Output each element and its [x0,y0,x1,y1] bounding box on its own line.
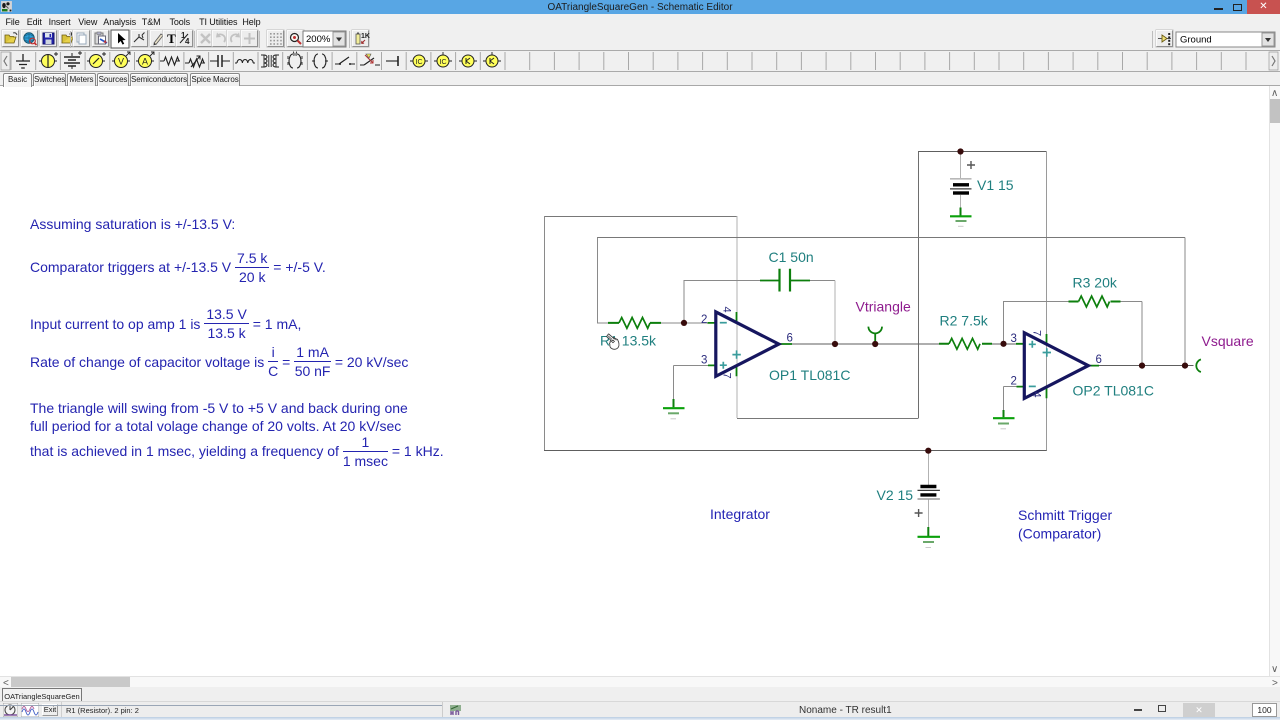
mouse hand cursor over R1 label [607,334,619,349]
wire negative rail top segment [544,216,737,218]
junction node Vtriangle tap [872,341,878,347]
battery plates icon [64,51,82,69]
svg-text:R2 7.5k: R2 7.5k [940,313,989,329]
svg-text:3: 3 [1011,333,1017,345]
wire C1 right horizontal [810,280,835,282]
wire negative rail bottom segment [544,450,1047,452]
svg-text:4: 4 [1031,392,1043,398]
ground at OP2 pin2 [993,410,1015,429]
wire V2 battery stem lower [927,499,929,527]
svg-text:IC: IC [440,59,447,66]
wire OP1 V- drop at x=737 [736,216,738,418]
junction node R3 right on output [1139,363,1145,369]
inductor icon [235,60,255,64]
resistor icon [160,57,180,65]
ammeter icon [136,52,154,68]
resistor R2 [939,338,992,349]
svg-text:Vtriangle: Vtriangle [856,299,911,315]
wire OP1 output to R2 [792,343,940,345]
wire OP2 supply drop x=1046.5 [1046,152,1048,451]
ground at OP1 pin3 [663,399,685,419]
wire negative rail left segment [544,216,546,451]
junction node OP2 pin3 / R3 [1000,341,1006,347]
note formula line 3 [30,306,301,342]
battery V2 [915,487,940,518]
wire R3 right horizontal [1121,301,1143,303]
svg-text:M: M [293,52,298,58]
potentiometer icon [185,56,205,67]
svg-text:4: 4 [185,37,190,46]
ground icon [16,54,30,68]
coupled inductors icon [288,52,302,68]
note formula line 7 [30,433,444,469]
junction node Vsquare tap [1182,363,1188,369]
wire feedback vertical x=1185 [1184,238,1186,366]
wire OP1 pin3 horizontal [674,364,709,366]
op-amp OP1 [708,312,793,376]
status bar [0,701,1280,717]
svg-text:Ground: Ground [1180,35,1212,46]
resistor R1 [608,318,661,329]
svg-text:2: 2 [1011,376,1017,388]
note paragraph [30,400,408,416]
capacitor icon [210,55,230,67]
voltage source icon [87,52,106,68]
macro icon 3 [459,55,477,67]
junction node V2 top [925,448,931,454]
wire R1 to OP1 pin2 [661,322,708,324]
svg-text:OP2 TL081C: OP2 TL081C [1073,383,1154,399]
op-amp OP2 [1016,333,1099,399]
svg-text:200%: 200% [306,34,331,45]
svg-text:A: A [142,57,148,67]
junction node C1 right on output [832,341,838,347]
svg-text:3: 3 [701,355,707,367]
vertical scrollbar [1269,86,1280,676]
transformer icon [261,55,279,67]
voltmeter icon [112,52,130,68]
ground below V2 [918,527,941,548]
analysis note text block [30,216,235,232]
svg-text:Vsquare: Vsquare [1202,333,1254,349]
node Vtriangle terminal [868,327,882,344]
svg-text:Schmitt Trigger: Schmitt Trigger [1018,507,1112,523]
battery circle icon [39,52,58,68]
resistor R3 [1069,296,1121,307]
svg-text:V1 15: V1 15 [977,177,1014,193]
svg-text:R3 20k: R3 20k [1073,275,1118,291]
wire R3 left horizontal [1004,301,1069,303]
note formula line 2 [30,249,326,285]
macro IC icon 1 [410,55,428,67]
wire OP2 output to Vsquare [1099,365,1194,367]
svg-text:7: 7 [1031,330,1043,336]
capacitor C1 [760,269,810,292]
wire R2 to OP2 pin3 [992,343,1016,345]
wire OP2 pin2 ground drop [1003,387,1005,410]
terminator icon [386,56,398,66]
wire R1 left lead-in [597,322,608,324]
junction node A R1/C1/OP1 pin2 [681,320,687,326]
wire V2 battery stem upper [927,451,929,485]
svg-text:V: V [118,57,124,67]
macro icon 4 [483,52,501,67]
svg-text:V2 15: V2 15 [877,487,914,503]
svg-text:C1 50n: C1 50n [769,249,814,265]
svg-text:6: 6 [1096,354,1102,366]
wire V1 battery stem lower [960,195,962,208]
document tab [0,687,1280,701]
coupled inductors 2 icon [312,54,328,68]
node Vsquare terminal [1196,359,1201,372]
wire positive rail top segment V1 [918,151,1047,153]
wire node A up to C1 [683,280,685,323]
note formula line 4 [30,344,408,380]
controlled switch icon [360,54,380,65]
junction node V1 plus [957,148,963,154]
svg-text:1K: 1K [361,33,370,40]
svg-text:6: 6 [787,333,793,345]
svg-text:T: T [167,31,176,46]
wire positive rail vertical x=918 [918,152,920,419]
wire feedback top y=237 Vsquare to R1 [597,237,1185,239]
svg-text:2: 2 [701,314,707,326]
svg-text:4: 4 [721,307,733,313]
ground below V1 [950,208,972,227]
wire R3 right drop x=1142 [1141,302,1143,366]
wire OP2 pin2 horizontal [1004,386,1017,388]
wire C1 left horizontal [684,280,760,282]
window title bar [0,0,1280,14]
wire OP1 pin3 ground drop [673,365,675,399]
svg-text:Integrator: Integrator [710,506,770,522]
wire OP2 pin3 up to R3 [1003,301,1005,344]
component tabs [0,72,1280,86]
wire C1 right drop x=835 [834,281,836,345]
svg-text:7: 7 [721,373,733,379]
switch icon [335,57,355,65]
svg-text:OP1 TL081C: OP1 TL081C [769,367,850,383]
menu bar [0,14,1280,29]
battery V1 [950,161,975,193]
macro IC icon 2 [434,52,452,67]
wire V1 battery stem upper [960,152,962,179]
wire positive rail horizontal y=418 [737,418,919,420]
wire R1 left drop x=597 [597,238,599,324]
horizontal scrollbar [0,676,1280,687]
svg-text:IC: IC [416,59,423,66]
svg-text:(Comparator): (Comparator) [1018,526,1101,542]
